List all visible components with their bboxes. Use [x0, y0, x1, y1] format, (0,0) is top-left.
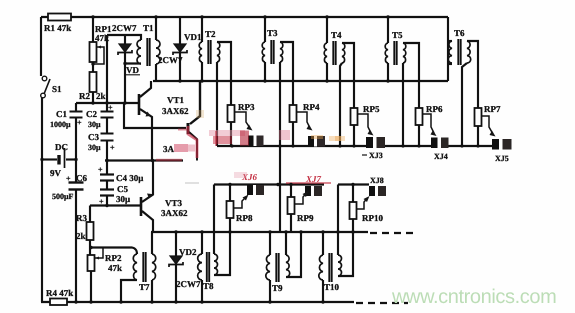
svg-text:C5: C5: [117, 184, 128, 194]
svg-text:RP3: RP3: [238, 102, 255, 112]
orange smear right of XJ2: [311, 135, 323, 139]
jack XJ6: [247, 185, 264, 195]
faint grey dash artifact: [185, 182, 199, 184]
wire RP1 R2 column: [92, 17, 94, 103]
wire R3 to RP2: [89, 240, 91, 255]
svg-text:VD: VD: [126, 65, 139, 75]
svg-text:RP8: RP8: [236, 213, 253, 223]
jack XJ2: [308, 136, 325, 147]
red overdraw on VT2: [188, 126, 197, 158]
svg-text:RP10: RP10: [362, 213, 383, 223]
wire VD base stub: [124, 103, 186, 128]
svg-text:+: +: [66, 174, 71, 183]
potentiometer RP2: [88, 248, 104, 272]
jack XJ1: [248, 136, 264, 147]
svg-text:R4 47k: R4 47k: [46, 288, 73, 298]
transformer T3: [262, 17, 293, 232]
svg-text:VD2: VD2: [179, 247, 197, 257]
svg-text:XJ8: XJ8: [370, 176, 384, 185]
jack XJ7: [305, 186, 322, 196]
svg-text:3AX62: 3AX62: [162, 106, 189, 116]
svg-text:C6: C6: [76, 173, 87, 183]
red smudge XJ2: [279, 130, 290, 140]
capacitor C6 500uF: [69, 183, 84, 190]
transistor VT1: [139, 81, 152, 161]
svg-text:2k: 2k: [96, 91, 106, 101]
svg-text:2k: 2k: [76, 231, 86, 241]
potentiometer RP9: [288, 185, 309, 233]
wire top supply bus: [41, 16, 448, 18]
wire left bus upper: [40, 17, 42, 76]
jack XJ3: [366, 137, 385, 148]
potentiometer RP4: [290, 105, 313, 146]
wire VT3 base line: [90, 206, 140, 223]
resistor R2: [90, 72, 97, 92]
wire jack line XJ8: [338, 183, 369, 185]
svg-text:RP9: RP9: [297, 213, 314, 223]
svg-text:T9: T9: [272, 283, 283, 293]
transformer T1: [137, 17, 160, 81]
wire bottom supply bus: [41, 301, 354, 303]
svg-text:DC: DC: [55, 142, 68, 152]
transformer T5: [385, 17, 419, 146]
svg-text:C4 30μ: C4 30μ: [116, 173, 143, 183]
junction dots bottom bus: [74, 300, 77, 303]
wire RP2 bottom: [90, 271, 92, 302]
svg-text:VT1: VT1: [167, 95, 185, 105]
transistor VT2 partially overdrawn: [188, 81, 200, 161]
red smudge XJ1: [209, 130, 245, 136]
svg-text:VT3: VT3: [165, 198, 183, 208]
svg-text:T8: T8: [203, 281, 214, 291]
svg-text:S1: S1: [52, 84, 62, 94]
svg-text:www.cntronics.com: www.cntronics.com: [391, 286, 556, 308]
svg-text:RP7: RP7: [484, 104, 501, 114]
switch S1: [41, 76, 50, 98]
svg-text:R2: R2: [79, 91, 90, 101]
svg-text:500μF: 500μF: [52, 192, 74, 201]
wire bottom bus dashed continuation: [356, 302, 408, 304]
potentiometer RP8: [214, 185, 249, 276]
svg-text:+: +: [98, 165, 103, 174]
svg-text:T7: T7: [139, 282, 150, 292]
svg-text:RP4: RP4: [303, 102, 320, 112]
zener diode VD 2CW7: [118, 35, 132, 64]
resistor R1: [48, 14, 71, 21]
wire collector bus upper oscillator: [153, 80, 448, 82]
svg-text:T5: T5: [392, 30, 403, 40]
wire emitter rail: [105, 159, 183, 161]
svg-text:XJ3: XJ3: [369, 151, 383, 160]
resistor R4: [50, 299, 67, 306]
potentiometer RP7: [475, 108, 496, 146]
junction dots sleeve line: [230, 144, 233, 147]
svg-text:RP2: RP2: [105, 253, 122, 263]
junction dots left column: [40, 158, 43, 161]
svg-text:VD1: VD1: [184, 32, 202, 42]
orange smear near XJ3: [329, 136, 345, 141]
svg-text:T2: T2: [205, 29, 216, 39]
battery DC 9V: [42, 148, 76, 168]
transformer T9: [266, 232, 301, 302]
wire lower bus dashed continuation: [370, 232, 414, 234]
capacitor C4 30u: [100, 175, 114, 181]
svg-text:+: +: [77, 118, 82, 127]
transformer T2: [199, 17, 231, 146]
svg-text:T10: T10: [324, 282, 340, 292]
wire VT1 base line: [76, 102, 138, 104]
potentiometer RP10: [338, 185, 370, 277]
svg-text:+: +: [108, 103, 113, 112]
wire C2 C3 C4 C5 column: [106, 35, 108, 206]
svg-text:T1: T1: [143, 23, 154, 33]
svg-text:3AX62: 3AX62: [161, 208, 188, 218]
svg-text:+: +: [110, 143, 115, 152]
svg-text:C2: C2: [86, 109, 97, 119]
svg-text:C1: C1: [56, 109, 67, 119]
capacitor C5 30u: [100, 190, 114, 196]
potentiometer RP6: [416, 108, 437, 146]
wire jack line XJ7: [278, 183, 324, 185]
potentiometer RP1: [90, 42, 105, 64]
red overdraw on emitter rail: [156, 159, 182, 162]
wire XJ8 line riser: [337, 185, 339, 256]
wire jack line XJ6: [214, 183, 278, 185]
wire zener to T1 bottom and base branch: [125, 64, 141, 104]
wire T8 secondary top riser: [213, 185, 215, 255]
junction dots top bus: [91, 15, 94, 18]
wire left bus lower: [41, 97, 43, 302]
jack XJ4: [431, 138, 449, 149]
svg-text:R3: R3: [76, 213, 87, 223]
svg-text:XJ4: XJ4: [434, 152, 448, 161]
wire C1 C6 column: [75, 103, 77, 302]
svg-text:30μ: 30μ: [116, 194, 130, 204]
wire collector bus lower oscillator: [151, 231, 368, 233]
potentiometer RP5: [351, 108, 374, 146]
resistor R3: [87, 222, 94, 240]
svg-text:30μ: 30μ: [88, 120, 101, 129]
wire T1 primary top: [107, 35, 141, 40]
svg-text:1000μ: 1000μ: [50, 120, 71, 129]
red scribble over 3AX62 label: [174, 144, 188, 152]
zener diode VD2: [169, 232, 183, 302]
svg-text:T3: T3: [267, 28, 278, 38]
transistor VT3: [141, 161, 153, 233]
junction dots collector bus upper: [178, 79, 181, 82]
transformer T8: [198, 232, 218, 302]
svg-text:2CW7: 2CW7: [112, 23, 137, 33]
junction dots collector bus lower: [174, 230, 177, 233]
svg-text:RP6: RP6: [426, 104, 443, 114]
jack XJ5: [492, 139, 512, 150]
capacitor C2 30u: [101, 112, 114, 118]
svg-text:T4: T4: [331, 30, 342, 40]
svg-text:XJ5: XJ5: [495, 154, 509, 163]
junction dots jack lines: [228, 183, 231, 186]
transformer T4: [324, 17, 354, 146]
svg-text:3A: 3A: [163, 144, 175, 154]
svg-text:R1 47k: R1 47k: [44, 23, 71, 33]
svg-text:9V: 9V: [50, 168, 62, 178]
svg-text:2CW7: 2CW7: [176, 279, 201, 289]
svg-text:C3: C3: [88, 132, 99, 142]
capacitor C1 1000u: [70, 112, 83, 118]
svg-text:T6: T6: [454, 28, 465, 38]
wire T7 primary bottom return: [121, 280, 137, 302]
jack XJ8: [369, 186, 386, 196]
capacitor C3 30u: [101, 134, 114, 141]
transformer T7: [133, 232, 155, 302]
transformer T6: [448, 39, 478, 146]
wire RP2 to T7 primary top: [91, 248, 137, 255]
wire jack sleeve line top row: [217, 145, 492, 147]
svg-text:47k: 47k: [108, 263, 122, 273]
svg-text:RP5: RP5: [363, 104, 380, 114]
svg-text:30μ: 30μ: [88, 143, 101, 152]
wire T6 right-side vertical: [447, 17, 449, 81]
zener diode VD1: [173, 17, 187, 81]
potentiometer RP3: [228, 105, 253, 146]
transformer T10: [319, 232, 342, 302]
